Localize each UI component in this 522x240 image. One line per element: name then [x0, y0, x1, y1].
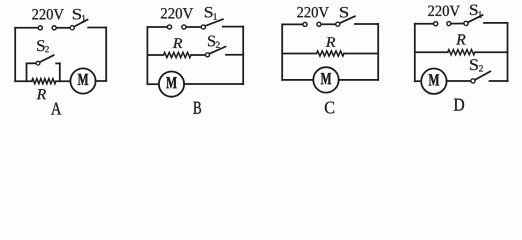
wire: [344, 53, 378, 55]
source terminal right D: [447, 22, 451, 26]
wire: [490, 80, 508, 82]
label R C: [326, 37, 336, 46]
wire: [184, 83, 243, 85]
source terminal right C: [317, 22, 321, 26]
wire bottom B: [147, 83, 159, 85]
label 220V B: [161, 8, 193, 19]
wire: [96, 80, 107, 82]
wire: [223, 26, 243, 28]
switch S1 D: [464, 15, 483, 25]
label S C: [340, 7, 348, 17]
label C: [325, 102, 334, 114]
label 220V A: [32, 9, 64, 20]
resistor R D: [448, 50, 475, 55]
source terminal left D: [434, 22, 438, 26]
wire mid B: [147, 54, 163, 56]
source terminal left B: [167, 25, 171, 29]
switch S2 D: [471, 71, 490, 83]
resistor R A: [32, 79, 56, 84]
wire bottom C: [282, 79, 313, 81]
wire: [186, 26, 201, 28]
motor M C: [313, 67, 338, 92]
wire mid D: [415, 51, 448, 53]
label D: [454, 99, 464, 111]
wire: [191, 54, 205, 56]
motor M B: [159, 72, 184, 97]
wire right B: [242, 27, 244, 85]
source terminal right A: [52, 26, 56, 30]
wire: [321, 23, 335, 25]
label S1 A: [73, 9, 86, 21]
label S1 B: [205, 7, 217, 20]
label S2 A: [37, 40, 49, 52]
wire: [226, 54, 243, 56]
wire bottom D: [415, 80, 422, 82]
label R B: [173, 38, 183, 47]
wire: [57, 27, 70, 29]
wire: [451, 23, 464, 25]
wire left D: [414, 24, 416, 81]
label R D: [456, 34, 465, 44]
label S1 D: [470, 5, 482, 18]
wire left A: [14, 28, 16, 81]
wire bottom A: [15, 80, 32, 82]
source terminal left A: [38, 26, 42, 30]
wire top-left A: [15, 27, 38, 29]
resistor R C: [317, 51, 345, 56]
label R A: [37, 89, 46, 99]
wire top-left B: [147, 26, 167, 28]
motor M A: [70, 68, 95, 93]
wire right D: [507, 23, 509, 81]
switch S1 A: [70, 20, 87, 30]
wire right A: [105, 28, 107, 82]
label 220V C: [297, 7, 329, 18]
wire: [339, 79, 379, 81]
wire left C: [281, 24, 283, 80]
wire top-left D: [415, 23, 434, 25]
switch S2 B: [206, 47, 226, 57]
switch S C: [336, 16, 355, 26]
label S2 B: [208, 36, 220, 48]
switch S2 branch A: [27, 55, 60, 81]
wire: [475, 51, 508, 53]
wire: [56, 80, 71, 82]
label A: [51, 103, 61, 115]
wire: [484, 22, 508, 24]
wire: [447, 80, 471, 82]
wire: [355, 23, 378, 25]
wire right C: [377, 24, 379, 80]
wire top-left C: [282, 23, 303, 25]
wire mid C: [282, 53, 316, 55]
switch S1 B: [201, 19, 223, 29]
wire left B: [146, 27, 148, 84]
wire: [88, 27, 106, 29]
label 220V D: [428, 6, 460, 17]
source terminal right B: [182, 25, 186, 29]
label B: [193, 102, 201, 114]
motor M D: [421, 69, 446, 94]
resistor R B: [164, 52, 192, 57]
label S2 D: [470, 59, 483, 71]
source terminal left C: [303, 22, 307, 26]
